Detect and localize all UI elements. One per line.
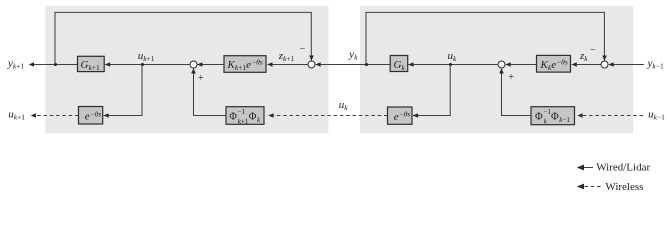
- svg-text:uk: uk: [339, 99, 349, 112]
- svg-text:−1: −1: [238, 108, 246, 116]
- arrowhead u_k+1 wireless output: [31, 113, 36, 118]
- legend wireless arrow: [578, 186, 601, 188]
- block K_k+1 e^-θs: [224, 56, 266, 73]
- block Phi_k+1^-1 Phi_k: [226, 107, 264, 125]
- wire feedback loop k: [366, 12, 604, 64]
- legend wired arrow: [578, 167, 593, 169]
- arrowhead into Phi block (k): [577, 113, 582, 118]
- svg-text:−: −: [300, 44, 306, 55]
- arrowhead into G k+1 block: [105, 62, 110, 67]
- wire u_k+1 node down to delay block: [104, 65, 142, 116]
- svg-text:+: +: [198, 73, 204, 84]
- node tap y_k: [365, 63, 368, 66]
- summing junction S1 k: [601, 61, 608, 68]
- svg-text:Φ: Φ: [229, 112, 237, 123]
- svg-text:k+1: k+1: [238, 117, 249, 125]
- dashed wire u_k+1 wireless output: [32, 115, 79, 117]
- node u_k: [449, 63, 452, 66]
- wire S1 k to K_k block (z_k): [572, 64, 601, 66]
- block e^-θs (k): [388, 107, 413, 124]
- svg-text:Φ: Φ: [535, 112, 543, 123]
- svg-text:uk+1: uk+1: [8, 108, 25, 121]
- summing junction S1 k+1: [308, 61, 315, 68]
- arrowhead into S2 bottom (k+1): [191, 68, 196, 73]
- svg-text:Φ: Φ: [551, 112, 559, 123]
- arrowhead into G_k block: [408, 62, 413, 67]
- svg-text:Wireless: Wireless: [605, 181, 643, 193]
- arrowhead into S2 k: [505, 62, 510, 67]
- block G_k+1: [78, 56, 105, 71]
- summing junction S2 k+1: [190, 61, 197, 68]
- arrowhead into S2 k bottom: [499, 68, 504, 73]
- arrowhead into S1 k right: [608, 62, 613, 67]
- block K_k e^-θs: [537, 55, 571, 72]
- arrowhead y_k+1 output: [29, 62, 34, 67]
- wire feedback loop k+1: [55, 12, 311, 64]
- block Phi_k^-1 Phi_k-1: [531, 107, 575, 125]
- wire S1 to K block (z_k+1): [268, 64, 309, 66]
- arrowhead into delay e^-θs (k): [413, 113, 418, 118]
- arrowhead into K k+1 block: [267, 62, 272, 67]
- vehicle k+1 subsystem background: [46, 6, 329, 134]
- wire Phi block to S2 (k+1): [194, 69, 227, 116]
- svg-text:−: −: [590, 45, 596, 56]
- summing junction S2 k: [498, 61, 505, 68]
- wire S2 to G block (u_k+1): [105, 64, 189, 66]
- svg-text:k−1: k−1: [559, 116, 570, 124]
- wire K block to S2: [198, 64, 225, 66]
- wire S2 k to G_k (u_k): [409, 64, 499, 66]
- arrowhead into S1 k+1 right: [315, 62, 320, 67]
- wire Phi block k to S2 k: [502, 69, 532, 116]
- arrowhead into Phi block (k+1): [268, 113, 273, 118]
- wire y_k+1 output: [30, 64, 78, 66]
- node tap y_k+1: [54, 63, 57, 66]
- svg-text:Φ: Φ: [249, 112, 257, 123]
- block G_k: [390, 56, 408, 72]
- dashed wire u_k-1 wireless input: [578, 115, 643, 117]
- wire u_k node down to delay block k: [413, 65, 450, 116]
- arrowhead into summing junction top (k+1): [309, 56, 314, 61]
- arrowhead into delay e^-θs (k+1): [103, 113, 108, 118]
- svg-text:uk−1: uk−1: [648, 108, 665, 121]
- vehicle k subsystem background: [360, 6, 633, 134]
- wire K_k to S2 k: [506, 64, 537, 66]
- svg-text:yk+1: yk+1: [7, 58, 24, 71]
- svg-text:+: +: [508, 72, 514, 83]
- arrowhead into S2 k+1: [197, 62, 202, 67]
- block e^-θs (k+1): [79, 107, 103, 125]
- wire y_k-1 input: [609, 64, 644, 66]
- svg-text:yk: yk: [348, 49, 358, 62]
- arrowhead into summing junction top (k): [602, 56, 607, 61]
- arrowhead into K_k block: [572, 62, 577, 67]
- dashed wire u_k wireless from vehicle k to Phi (k+1): [269, 115, 388, 117]
- wire y_k from G_k output to S1 k+1: [316, 64, 390, 66]
- svg-text:yk−1: yk−1: [647, 58, 664, 71]
- node u_k+1: [141, 63, 144, 66]
- svg-text:Wired/Lidar: Wired/Lidar: [596, 162, 650, 174]
